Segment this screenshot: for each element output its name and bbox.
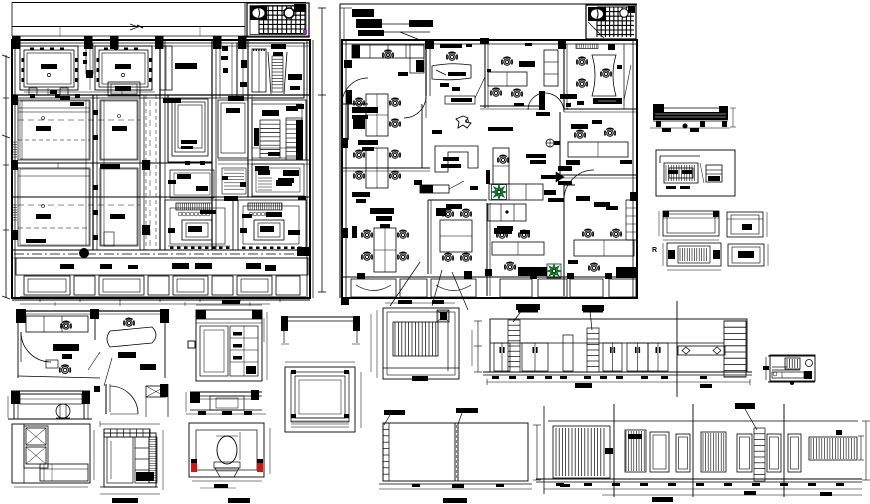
middle room door arcs [545,93,564,112]
mirror frame bottom lines [291,417,349,419]
TR hatch bar top [576,44,598,49]
middle plan: bottom-right room desk [574,240,634,256]
middle plan: small scattered bars [352,107,378,113]
stair black bar [288,74,302,80]
middle toilet: wc pan [588,7,606,21]
plant G1 [492,185,507,200]
left plan: dashed corridor horizontals [18,119,140,121]
wardrobe left door [107,437,133,483]
bedroom window 1 [26,428,46,445]
middle plan: cluster C desks [374,228,396,272]
cluster A chairs [354,98,364,106]
long elevation1 body [490,319,747,372]
center-bottom labels [494,228,512,234]
reception counter bar left [420,185,449,193]
room A2 lower cabinet [108,82,140,96]
left plan: cluster extra bars [168,180,176,184]
middle plan: cluster A desks [366,94,388,136]
wardrobe hatch strip [149,437,157,483]
left plan: extra verticals row2 [21,100,23,160]
counter right dim bracket [732,108,734,127]
bottom-right elevation: slat panel 1 [553,426,610,478]
desk elevation legs [13,404,15,419]
detail1 scallop row [178,212,182,216]
left plan: room C1 mid-right nested [218,100,248,158]
detail1 comb top [175,203,177,210]
middle plan: middle room walls [484,44,486,108]
vanity ticks [198,411,206,415]
mid-right cabinet bars [571,124,588,129]
middle plan: band wall marks [357,273,365,279]
bedroom window 2 [26,447,46,464]
left plan: platform extra bars [100,264,112,269]
bre: right end bracket [860,436,862,460]
left plan: stair room [237,43,304,98]
bottom wardrobe section [104,433,156,487]
reception door arc [404,96,426,118]
door detail lintel [146,386,166,397]
middle plan: reception cabinet row [352,45,424,58]
left plan: right pantry block [252,164,304,196]
left zone door arc [342,78,368,104]
left plan: mid-right small room detail [252,104,302,158]
stair ladder tapered [268,52,271,94]
plain elevation right dim [536,425,538,480]
left plan: workstation detail block 1 [165,200,233,250]
center-bottom chairs [497,230,507,238]
toilet mirror ellipse [217,436,237,464]
detail1 inner unit [182,220,212,240]
shutter slats [393,322,438,356]
middle plan: person figure [456,116,471,128]
left plan: vertical walls [92,95,94,250]
plain elevation base [379,483,532,485]
bre: slat panel 2 [625,430,646,472]
column line A [613,404,615,497]
bre: door D3 [737,434,752,472]
long elevation1 tall panel [563,335,573,371]
chairs T2 [502,57,512,65]
small detail bars [772,366,787,368]
left plan: footer boxes [20,296,306,298]
toilet elevation box [189,423,264,477]
bre: dim lines [544,488,862,490]
left plan: left dimension line [5,55,7,298]
left plan: top wall columns [12,36,21,49]
boxed unit: side unit [706,165,722,182]
center cabinet chair [498,155,508,163]
bre: door D5 [788,434,801,472]
small detail base [768,381,815,383]
middle plan: left zone partition walls [342,103,368,105]
chair T1 [447,52,457,60]
TR black bar bottom [593,98,622,104]
middle plan: top-right room butterfly desk [592,55,616,96]
small detail dim [765,357,767,380]
desk elevation dim [7,396,9,418]
middle plan: wall columns [425,40,434,49]
wardrobe top comb [104,429,150,437]
bre: door D2 [676,434,690,472]
left plan: row2 small labels [70,102,84,106]
left plan: outer walls [12,40,310,298]
cluster A labels [358,140,378,145]
bre: ladder [754,428,765,481]
plain elevation box [383,423,528,481]
bedroom bed [40,464,88,481]
middle plan: mid-right room wall [559,112,561,178]
shutter dims [376,310,378,378]
cluster A partition [347,94,349,140]
left plan: room B2 interior [100,100,138,160]
room D1 labels [255,166,269,171]
middle toilet: door line [588,22,604,38]
cluster B labels [352,192,370,197]
left plan: room B1 interior [18,100,90,160]
left plan: room A3 small [160,46,172,90]
left plan: room B4 interior [100,168,138,246]
left plan: left wall piers [12,95,18,105]
left plan: right col extra bars [254,128,259,146]
left plan: right zone extra [218,159,310,161]
room A1 door marks [29,88,37,95]
middle plan: reception room wall [425,44,427,96]
counter labels [443,157,459,161]
cluster A dark chair blob [353,119,365,129]
boxed unit: hatched cabinet [664,163,698,183]
detail2 inner unit [254,220,284,240]
boxed unit: shelf line [660,155,700,157]
T1 labels above [440,44,462,48]
long elevation1 ladder2 [587,328,599,372]
stair room tall cabinet [252,49,266,92]
mid black bars [497,226,513,231]
left plan bottom dim line [20,303,270,305]
center bar label [488,127,513,131]
left plan: lower corridor dash-dot [14,253,308,255]
long elevation1 base [483,371,752,373]
platform labels [172,263,189,269]
middle plan: mid-right room desk [568,142,628,157]
bre: slat panel 3 [701,432,726,472]
middle plan: cluster D desks [440,220,472,252]
stair room bits [241,60,247,68]
T1 open label [445,96,475,104]
right detail C elevation with hatch [667,243,721,266]
left plan: corridor blobs [80,249,89,258]
right detail A plan [663,211,719,236]
long elevation1 diamond bar [678,346,725,355]
counter legs [656,121,661,127]
bl room: cabinet row [26,316,88,332]
center black wall stub [486,170,490,184]
table dim [263,318,265,342]
plain elevation labels [384,410,405,415]
bottom-right elevation top line [548,420,858,422]
bre: door D1 [650,432,669,472]
bottom-left desk elevation [11,391,20,404]
bottom-left room plan: walls [17,310,167,312]
middle plan: top-right partition [563,44,565,110]
left plan: platform band [16,258,308,275]
bl room: small desk [46,360,58,368]
long elevation1 dim line [487,381,750,383]
bre: right dim [865,421,867,480]
shutter plan detail [383,308,459,379]
wardrobe front elevation [196,310,262,381]
bre: right slat panel [809,437,857,460]
cluster D black marks [436,208,446,216]
middle plan: center-bottom room walls [486,203,488,296]
left plan: extra density lines row1 [20,45,310,47]
middle plan: top-center desk T1 [432,64,471,80]
shutter right column [447,322,449,371]
left floor plan: top boundary band [12,2,306,4]
cluster C chairs [362,230,372,238]
column symbol with cross [546,139,554,147]
left plan: left wall hatch piers [12,141,17,143]
TR left bars [560,94,577,99]
left plan: row1 corridor bits [222,46,228,51]
mid cabinet block [488,204,526,221]
bottom-right door arc [564,170,594,200]
bre: door D4 [767,434,781,472]
wardrobe dims [100,423,160,425]
toilet elevation bottom bar [228,498,250,503]
middle plan: cluster B desks [366,148,388,188]
T1 bars below [440,83,449,87]
left plan toilet: basin [294,4,306,12]
left plan: corridor between A1-A2 [86,44,93,74]
TR diagonal [624,65,631,100]
middle plan: n-shaped counter [435,146,478,172]
bottom-right wall cabinets [626,200,637,240]
left dim bracket long elevation [477,321,479,372]
long elevation1 top labels [516,304,540,310]
right detail: counter elevation [653,107,728,109]
left plan: bottom outer line [12,299,310,301]
long elevation1 ladder1 [508,320,520,372]
left plan: workstation detail block 2 [238,200,306,250]
right detail B plan [727,212,763,237]
column line C [783,404,785,497]
detail2 labels [242,214,252,218]
room A4 top label [175,63,197,69]
desk elevation chair front [56,404,70,418]
middle plan: bottom-right room walls [563,185,565,296]
room B1 dashes [18,139,90,141]
stair room label bar [271,44,286,49]
left plan: room A2 nested table [95,46,152,90]
middle plan: toilet block tile grid [586,5,636,39]
bottom-right chairs [583,229,593,237]
middle plan: tall shelf cabinet [544,50,558,86]
left plan: room D1 upper right detail [252,100,306,160]
left plan: right dimension line [321,8,323,292]
wardrobe base [100,486,158,488]
left plan: wall tick squares [93,110,98,115]
svg-text:R: R [652,247,657,254]
small square marker 2 [94,386,100,392]
bl room: partition [94,314,96,340]
bl room: chair1 [61,321,71,329]
long elevation1 cabinet doors [494,343,510,371]
left plan: mid rooms B area walls [12,94,310,96]
room D1 right cabinet [286,118,302,160]
mid bars pair [526,154,546,158]
right detail D elevation [728,244,764,266]
left plan: room B3 lower-left interior [18,168,90,246]
long elevation1 base ticks [492,376,499,379]
middle plan: mid-left labels [370,208,394,214]
bottom-left bedroom plan [12,424,90,483]
column line B [692,404,694,497]
shutter corner hatch [437,310,449,322]
mid-right chairs [575,130,585,138]
room D1 shelf ladder [260,120,280,158]
bedroom dim [14,486,88,488]
left plan: cluster tick rows [170,247,174,250]
middle plan: top-middle room desk [488,72,527,86]
reception chair [383,50,393,58]
bl room: door arc [21,332,51,362]
left plan: toilet block top-right with tile grid [247,3,309,37]
left plan: big room extra borders [20,101,89,159]
bre: base ticks [556,483,564,486]
bl room: labels [53,344,79,351]
middle plan: site boundary [340,3,637,5]
chairs TR [577,57,587,65]
wardrobe front dims [196,304,262,306]
middle plan corner blob [341,299,349,305]
bl room: desk2 curved [107,327,156,347]
bl room: chair2 [124,318,134,326]
middle plan: center vertical cabinet [493,148,509,184]
wardrobe front left door [200,326,228,376]
cluster C partition [352,226,357,238]
toilet dims [269,428,271,474]
boxed unit: ticks [666,186,676,189]
mirror frame ticks [291,370,296,374]
left plan: room A1 chair ticks [30,48,34,51]
cluster B chairs [354,150,364,158]
bre: label with leader [735,403,755,409]
middle plan: center-bottom desks [492,242,544,255]
small detail hatch unit [785,358,800,369]
bl room: leader [88,352,100,370]
detail2 comb top [247,203,249,210]
plain elevation center divider [454,423,456,481]
bre: dim labels [652,497,673,502]
mirror frame dim [360,372,362,428]
bottom-right labels [576,196,590,201]
middle plan: title text bars top-left [352,9,374,17]
plain elevation left ladder [383,423,389,481]
bl room: chair3 [60,365,71,374]
left plan: room A4 nested square room [168,95,212,162]
toilet red tiles [191,463,197,472]
middle plan: bottom band boxes [342,276,637,278]
small square marker [188,341,195,348]
middle plan: below labels [518,308,538,313]
left plan: extra dim ticks bottom [39,298,41,302]
middle plan: dark desk blobs bottom [518,267,547,276]
toilet wc front [214,462,240,468]
middle toilet: basin [620,9,628,17]
long elevation1 right stripes block [724,321,746,377]
middle plan: mid cabinets with plant [489,184,543,200]
mirror frame detail [285,367,355,432]
table front elevation [281,316,360,318]
middle plan: leader diagonals [390,262,420,306]
left plan: corridor C dashed lines [145,95,147,250]
cluster D chairs [443,209,453,217]
reception desk return [410,45,424,73]
door swing arc [110,386,138,414]
plant G2 [547,264,561,278]
vanity counter section [190,392,200,403]
left plan: room A1 nested table [20,46,78,90]
left plan: top band arrow [130,24,138,30]
left plan: room upper-mid furniture [170,170,214,198]
wardrobe front shelves [230,326,258,376]
bottom door detail [105,384,107,414]
small detail circle [806,360,813,367]
middle plan: outer walls [342,40,637,298]
bottom-right elevation: left tall line [543,406,545,494]
T2 labels [519,61,535,67]
left plan: room table side ticks [22,58,25,62]
door arrow [541,175,556,179]
long vertical section line [676,301,678,397]
right detail: boxed unit [656,150,735,196]
left plan toilet: wc pan [250,6,267,20]
bre: base lines [536,478,862,480]
shutter bottom band [383,367,459,369]
small right detail box [770,355,815,381]
plain elevation bottom label [443,498,467,503]
wardrobe shelves [135,437,149,483]
